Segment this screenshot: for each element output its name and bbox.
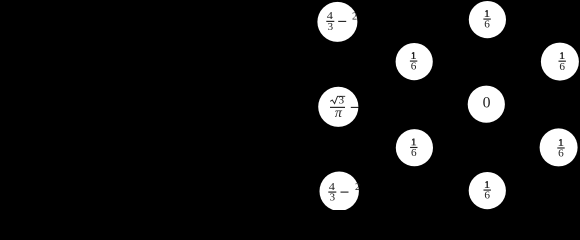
svg-text:6: 6 [411, 62, 417, 73]
svg-text:3: 3 [328, 22, 334, 33]
svg-text:0: 0 [483, 95, 491, 112]
svg-text:6: 6 [559, 62, 565, 73]
node N3 (row2,col2) value 1/6 [396, 43, 433, 80]
node N9 (row5,col1) value 4/3 - 2sqrt(3)/pi [320, 172, 361, 211]
svg-text:6: 6 [484, 191, 490, 202]
node N7 (row4,col2) value 1/6 [396, 129, 433, 166]
node N5 (row3,col1) value sqrt(3)/pi - ... [318, 87, 358, 127]
svg-text:2: 2 [355, 182, 360, 193]
svg-text:6: 6 [411, 148, 417, 159]
svg-text:6: 6 [558, 149, 564, 160]
svg-text:4: 4 [327, 11, 334, 22]
node N8 (row4,col4) value 1/6 [540, 128, 578, 166]
node N1 (row1,col1) value 4/3 - 2sqrt(3)/pi [317, 2, 357, 42]
node N4 (row2,col4) value 1/6 [541, 43, 579, 81]
node N10 (row5,col3) value 1/6 [469, 172, 506, 209]
svg-text:3: 3 [330, 193, 336, 204]
node N2 (row1,col3) value 1/6 [469, 1, 506, 38]
svg-text:2: 2 [352, 11, 357, 22]
node N6 (row3,col3) value 0 [468, 86, 505, 123]
svg-text:4: 4 [329, 182, 336, 193]
svg-text:6: 6 [484, 20, 490, 31]
svg-text:π: π [335, 106, 343, 121]
